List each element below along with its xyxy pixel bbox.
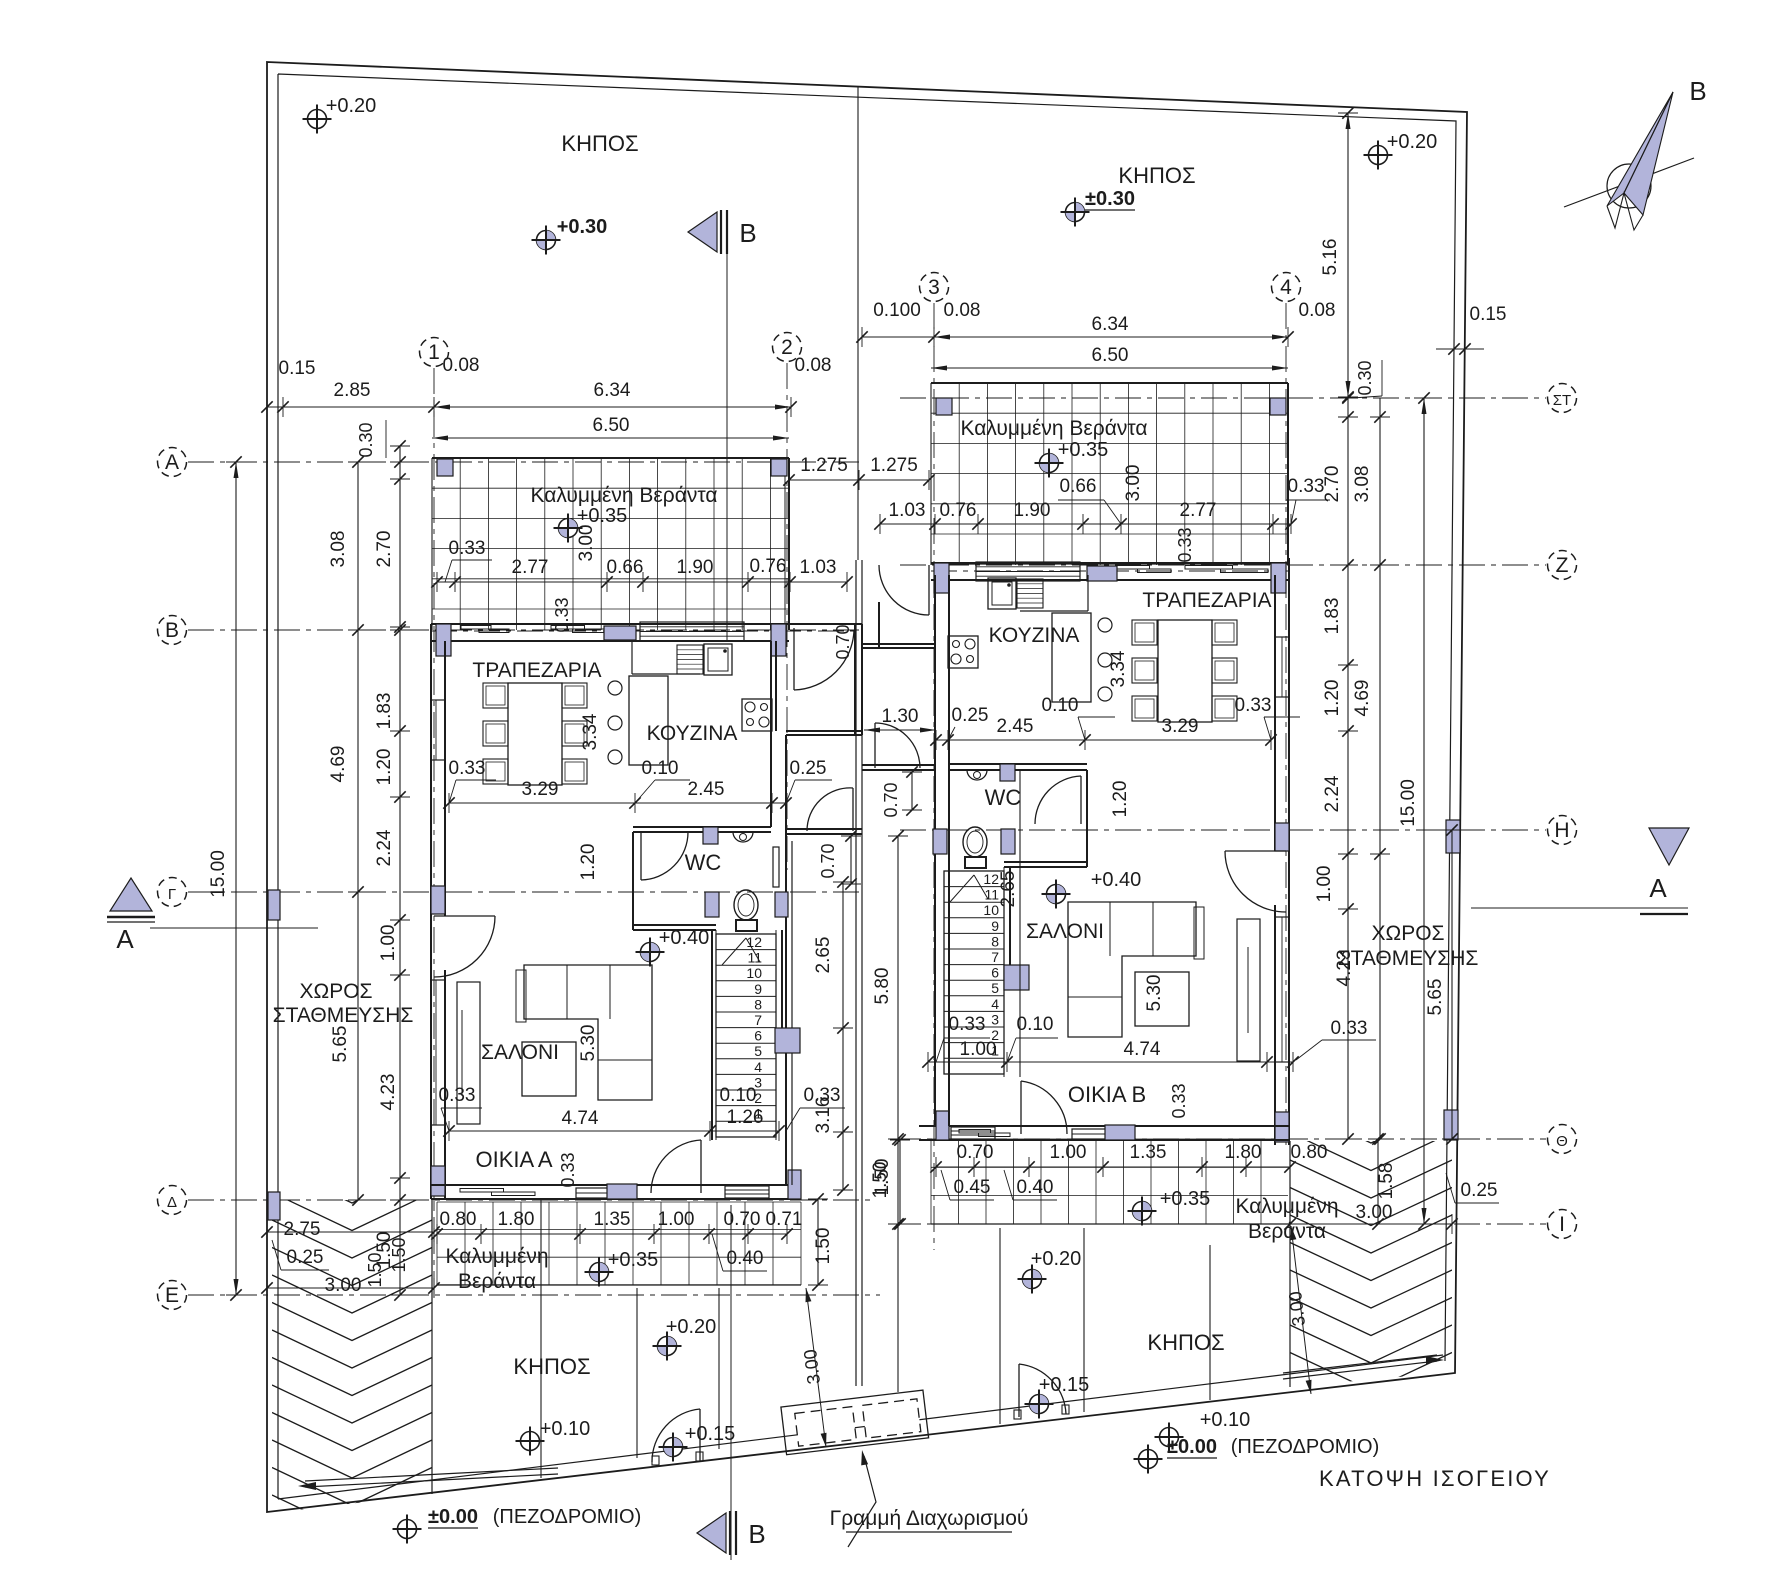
svg-text:3.00: 3.00 (1123, 465, 1144, 502)
house B top wall window 3 (1185, 566, 1233, 570)
svg-text:1.50: 1.50 (365, 1252, 385, 1287)
north arrow (1607, 164, 1651, 208)
property division line (Gramma Diachorismou) (857, 86, 859, 560)
column A top-right (771, 624, 786, 656)
house B bottom covered veranda tile grid (931, 1139, 1288, 1224)
svg-text:1.20: 1.20 (374, 749, 395, 786)
dim 4.74 house A (449, 1130, 779, 1132)
spot level 0.00 street right (1139, 1450, 1158, 1469)
spot level +0.35 bottom veranda B (1133, 1202, 1152, 1221)
house B stairs (944, 871, 1004, 1074)
column A WC mid (703, 827, 718, 844)
svg-text:3.00: 3.00 (576, 525, 597, 562)
svg-text:+0.15: +0.15 (685, 1423, 736, 1445)
svg-text:6.50: 6.50 (1092, 345, 1129, 366)
section mark B bottom (697, 1513, 726, 1553)
svg-text:0.33: 0.33 (552, 597, 572, 632)
svg-text:1.275: 1.275 (800, 455, 848, 476)
svg-text:Καλυμμένη: Καλυμμένη (445, 1245, 548, 1268)
svg-text:0.10: 0.10 (642, 758, 679, 779)
house A covered veranda tile grid (432, 458, 789, 630)
svg-text:I: I (1559, 1213, 1565, 1236)
spot level +0.15 garden B (1030, 1395, 1049, 1414)
svg-text:5: 5 (754, 1043, 762, 1059)
svg-text:0.33: 0.33 (1169, 1083, 1189, 1118)
house A stair left wall (711, 930, 713, 1140)
dim chain top house B (862, 336, 1288, 338)
svg-text:1.275: 1.275 (870, 455, 918, 476)
section mark A left (110, 878, 152, 911)
svg-text:2.24: 2.24 (1322, 775, 1343, 812)
kitchen dish rack house A (677, 645, 703, 674)
svg-text:0.33: 0.33 (449, 538, 486, 559)
kitchen sink house B (988, 578, 1016, 609)
svg-text:7: 7 (991, 949, 999, 965)
stair break mark A (722, 938, 746, 965)
svg-text:3.08: 3.08 (328, 531, 349, 568)
house A stairs (716, 934, 776, 1137)
svg-text:ΚΗΠΟΣ: ΚΗΠΟΣ (1118, 163, 1195, 188)
axis line Gamma (188, 891, 862, 893)
svg-text:0.70: 0.70 (881, 782, 901, 817)
house B entrance door right wall (1225, 850, 1286, 852)
house A left wall (430, 624, 432, 1199)
house A corridor window right wall (773, 847, 779, 887)
spot level +0.30 top right garden (1066, 203, 1085, 222)
house B entrance door from passage (874, 723, 876, 768)
svg-text:0.33: 0.33 (1288, 476, 1325, 497)
left garden fence 1 (636, 1288, 638, 1458)
house B WC toilet (963, 827, 987, 857)
svg-text:4: 4 (991, 996, 999, 1012)
svg-text:0.70: 0.70 (724, 1209, 761, 1230)
spot level +0.10 garden B (1160, 1428, 1179, 1447)
kitchen hob house A (742, 699, 772, 731)
svg-text:Βεράντα: Βεράντα (1248, 1220, 1326, 1243)
svg-text:0.80: 0.80 (440, 1209, 477, 1230)
house A top wall window 2 (551, 626, 585, 630)
svg-text:0.33: 0.33 (449, 758, 486, 779)
site boundary inner line (278, 74, 1456, 1499)
dim chain left x358 (357, 462, 359, 1200)
svg-text:8: 8 (754, 996, 762, 1012)
column left boundary Gamma (268, 890, 280, 920)
column B stair jog (1004, 965, 1029, 990)
svg-text:4.74: 4.74 (562, 1108, 599, 1129)
svg-text:1: 1 (428, 341, 440, 364)
dim 1.30 house B entrance (864, 729, 936, 731)
column B bottom-left (936, 1111, 949, 1140)
house B bottom wall window 3 (951, 1127, 995, 1139)
svg-text:1.03: 1.03 (800, 557, 837, 578)
svg-text:2.45: 2.45 (688, 779, 725, 800)
axis line E (188, 1294, 880, 1296)
kitchen stools house B (1098, 618, 1112, 632)
svg-text:2.65: 2.65 (998, 871, 1019, 908)
svg-text:0.33: 0.33 (558, 1152, 578, 1187)
coffee table house B (1135, 972, 1189, 1026)
axis bubble Gamma (158, 878, 187, 907)
house A left wall window upper (431, 700, 445, 760)
column A top-mid (604, 626, 636, 640)
svg-text:4: 4 (754, 1059, 762, 1075)
svg-text:0.10: 0.10 (1042, 695, 1079, 716)
svg-text:0.08: 0.08 (944, 300, 981, 321)
dim chain veranda B (880, 523, 1291, 525)
svg-text:1.50: 1.50 (389, 1237, 409, 1272)
column A WC Gamma right (775, 892, 788, 917)
svg-text:ΣΑΛΟΝΙ: ΣΑΛΟΝΙ (481, 1041, 559, 1064)
house B top wall (931, 562, 1289, 564)
svg-text:0.15: 0.15 (279, 358, 316, 379)
svg-text:12: 12 (983, 871, 999, 887)
svg-text:1.30: 1.30 (882, 706, 919, 727)
house A WC toilet (734, 890, 758, 920)
svg-text:±0.30: ±0.30 (1085, 188, 1135, 210)
svg-text:0.76: 0.76 (750, 556, 787, 577)
house B right wall window lower (1275, 917, 1289, 1062)
svg-text:1.20: 1.20 (1322, 680, 1343, 717)
svg-text:11: 11 (747, 950, 762, 966)
spot level +0.40 salon A (641, 943, 660, 962)
svg-text:2.77: 2.77 (512, 557, 549, 578)
svg-text:5.65: 5.65 (1425, 979, 1446, 1016)
column right boundary H (1446, 820, 1460, 853)
stair break mark B (950, 875, 974, 902)
svg-text:B: B (165, 619, 179, 642)
house B bottom wall window 2 (1072, 1129, 1132, 1139)
svg-text:H: H (1554, 819, 1569, 842)
svg-text:+0.15: +0.15 (1039, 1374, 1090, 1396)
dim 1.275 pair verandas (789, 479, 929, 481)
column A bottom-right (788, 1170, 801, 1199)
svg-text:9: 9 (991, 918, 999, 934)
svg-text:0.40: 0.40 (727, 1248, 764, 1269)
house A kitchen right wall (770, 641, 772, 827)
spot level +0.35 veranda B (1040, 454, 1059, 473)
svg-text:2.65: 2.65 (813, 937, 834, 974)
svg-text:1.35: 1.35 (594, 1209, 631, 1230)
axis bubble Z (1548, 551, 1577, 580)
svg-text:ΤΡΑΠΕΖΑΡΙΑ: ΤΡΑΠΕΖΑΡΙΑ (1142, 589, 1271, 612)
svg-text:+0.20: +0.20 (326, 95, 377, 117)
axis bubble B (158, 616, 187, 645)
svg-text:(ΠΕΖΟΔΡΟΜΙΟ): (ΠΕΖΟΔΡΟΜΙΟ) (1231, 1436, 1380, 1458)
svg-text:±0.00: ±0.00 (428, 1506, 478, 1528)
svg-text:3.29: 3.29 (1162, 716, 1199, 737)
svg-text:A: A (1649, 873, 1667, 903)
svg-text:ΧΩΡΟΣ: ΧΩΡΟΣ (1371, 922, 1444, 945)
dim chain right x1348 (1347, 398, 1349, 1139)
house A side door from passage (786, 828, 862, 830)
svg-text:6.50: 6.50 (593, 415, 630, 436)
house B WC washbasin (967, 770, 987, 780)
svg-text:1.58: 1.58 (1376, 1163, 1397, 1200)
svg-text:Z: Z (1556, 554, 1569, 577)
axis line B (188, 629, 862, 631)
right garden gate door (1018, 1364, 1020, 1417)
svg-text:1.03: 1.03 (889, 500, 926, 521)
svg-text:3.00: 3.00 (1356, 1202, 1393, 1223)
spot level +0.35 bottom veranda A (590, 1263, 609, 1282)
house B bottom wall (919, 1125, 1289, 1127)
svg-text:0.33: 0.33 (1331, 1018, 1368, 1039)
svg-text:0.80: 0.80 (1291, 1142, 1328, 1163)
kitchen dish rack house B (1017, 579, 1043, 608)
dim 3.00 slant arrows (806, 1288, 826, 1447)
axis line 4 vertical (1285, 303, 1287, 1145)
tv unit house B (1237, 919, 1260, 1061)
svg-text:Καλυμμένη Βεράντα: Καλυμμένη Βεράντα (530, 484, 717, 507)
house B bottom wall window 1 (959, 1130, 991, 1134)
house A bottom wall window 2 (576, 1188, 636, 1198)
svg-text:ΟΙΚΙΑ Α: ΟΙΚΙΑ Α (475, 1147, 552, 1172)
svg-text:ΚΗΠΟΣ: ΚΗΠΟΣ (1147, 1330, 1224, 1355)
kitchen hob house B (948, 636, 978, 668)
svg-text:4: 4 (1280, 276, 1292, 299)
svg-text:6: 6 (991, 965, 999, 981)
svg-text:0.66: 0.66 (1060, 476, 1097, 497)
column A left bottom (431, 1166, 445, 1196)
svg-text:3.34: 3.34 (1108, 650, 1129, 687)
column B top-left (934, 563, 949, 593)
svg-text:1.90: 1.90 (677, 557, 714, 578)
house B door from veranda (top left) (928, 565, 930, 615)
dim chain bottom veranda B (936, 1166, 1290, 1168)
svg-text:0.70: 0.70 (818, 843, 838, 878)
spot level +0.15 garden A (664, 1438, 683, 1457)
kitchen counter house A (631, 641, 633, 674)
column A WC Gamma left (705, 892, 719, 917)
svg-text:+0.35: +0.35 (608, 1249, 659, 1271)
house A top wall window left (461, 626, 491, 630)
column A bottom-mid (607, 1184, 637, 1199)
svg-text:1.80: 1.80 (498, 1209, 535, 1230)
house B WC bottom wall (1004, 861, 1087, 863)
svg-text:1.26: 1.26 (727, 1107, 764, 1128)
svg-text:0.33: 0.33 (1235, 695, 1272, 716)
svg-text:Βεράντα: Βεράντα (458, 1270, 536, 1293)
section line B upper (726, 254, 728, 640)
chairs house A dining (483, 683, 508, 708)
axis line Z (900, 564, 1546, 566)
column A left Gamma (431, 886, 445, 914)
svg-text:+0.40: +0.40 (1091, 869, 1142, 891)
house B WC door (1080, 776, 1082, 824)
kitchen island house A (629, 676, 668, 765)
svg-text:±0.00: ±0.00 (1167, 1436, 1217, 1458)
svg-text:1.00: 1.00 (1314, 866, 1335, 903)
axis bubble I (1548, 1210, 1577, 1239)
svg-text:10: 10 (983, 902, 999, 918)
svg-text:4.23: 4.23 (378, 1074, 399, 1111)
svg-text:0.33: 0.33 (439, 1085, 476, 1106)
svg-text:3.34: 3.34 (580, 713, 601, 750)
svg-text:ΣΑΛΟΝΙ: ΣΑΛΟΝΙ (1026, 920, 1104, 943)
svg-text:0.08: 0.08 (443, 355, 480, 376)
dim 15.00 left (235, 462, 237, 1295)
svg-text:2.70: 2.70 (1322, 466, 1343, 503)
axis bubble 2 (773, 333, 802, 362)
svg-text:+0.10: +0.10 (1200, 1409, 1251, 1431)
svg-text:3: 3 (991, 1011, 999, 1027)
svg-text:2.45: 2.45 (997, 716, 1034, 737)
svg-text:0.33: 0.33 (804, 1085, 841, 1106)
house B covered veranda tile grid (931, 383, 1288, 565)
svg-text:5: 5 (991, 980, 999, 996)
svg-text:0.15: 0.15 (1470, 304, 1507, 325)
column B WC mid (1000, 764, 1015, 781)
svg-text:2.70: 2.70 (374, 531, 395, 568)
column B bottom-mid (1105, 1125, 1135, 1140)
dim chain bottom veranda A (437, 1233, 787, 1235)
svg-text:+0.35: +0.35 (577, 505, 628, 527)
svg-text:0.30: 0.30 (1355, 360, 1375, 395)
house A wall y731 vestibule (786, 730, 862, 732)
axis bubble E (158, 1281, 187, 1310)
svg-text:6: 6 (754, 1028, 762, 1044)
house A right upper wall (854, 624, 856, 735)
svg-text:B: B (739, 218, 756, 248)
svg-text:2.24: 2.24 (374, 829, 395, 866)
dim chain veranda A (437, 581, 847, 583)
svg-text:11: 11 (984, 887, 999, 903)
chairs house B dining (1132, 620, 1157, 645)
axis bubble ST (1548, 384, 1577, 413)
svg-text:0.25: 0.25 (287, 1247, 324, 1268)
svg-text:5.30: 5.30 (578, 1025, 599, 1062)
svg-text:ΚΗΠΟΣ: ΚΗΠΟΣ (561, 131, 638, 156)
dim 15.00 right (1423, 398, 1425, 1224)
svg-text:+0.30: +0.30 (557, 216, 608, 238)
spot level +0.20 garden B (1023, 1270, 1042, 1289)
house A bottom wall (431, 1184, 801, 1186)
svg-text:5.30: 5.30 (1144, 975, 1165, 1012)
column B WC H right (1001, 829, 1015, 854)
svg-text:4.69: 4.69 (328, 746, 349, 783)
house A WC top wall (633, 826, 771, 828)
svg-text:6.34: 6.34 (594, 380, 631, 401)
svg-text:WC: WC (685, 850, 722, 875)
dim labels kitchen A (449, 802, 786, 804)
svg-text:8: 8 (991, 933, 999, 949)
svg-text:Καλυμμένη: Καλυμμένη (1235, 1195, 1338, 1218)
svg-text:2.85: 2.85 (334, 380, 371, 401)
column A top-left (436, 624, 451, 656)
kitchen counter house B (1087, 575, 1089, 611)
svg-text:3.00: 3.00 (800, 1348, 824, 1385)
svg-text:0.25: 0.25 (1461, 1180, 1498, 1201)
house B right wall window upper (1275, 637, 1289, 697)
right garden fence 1 (999, 1228, 1001, 1424)
site boundary outer line (267, 62, 1467, 1512)
svg-text:0.76: 0.76 (940, 500, 977, 521)
right garden fence 2 (1083, 1228, 1085, 1412)
axis line ST (900, 397, 1546, 399)
section line B lower (730, 1205, 732, 1560)
house B left wall (934, 575, 936, 1126)
house A bottom wall window 1 (460, 1189, 504, 1193)
house A door from veranda (top right) (793, 628, 795, 690)
column B top-right (1271, 563, 1286, 593)
axis line 2 vertical (786, 363, 788, 870)
svg-text:4.69: 4.69 (1352, 680, 1373, 717)
column A stair right jog (775, 1028, 800, 1053)
svg-text:(ΠΕΖΟΔΡΟΜΙΟ): (ΠΕΖΟΔΡΟΜΙΟ) (493, 1506, 642, 1528)
svg-text:E: E (165, 1284, 179, 1307)
dim 6.50 house B veranda (931, 367, 1288, 369)
sofa house A (524, 965, 652, 1100)
kitchen island house B (1052, 613, 1091, 702)
svg-text:2.75: 2.75 (284, 1219, 321, 1240)
house A WC door (640, 832, 642, 880)
axis line Delta (188, 1199, 870, 1201)
svg-text:1.90: 1.90 (1014, 500, 1051, 521)
spot level 0.00 street left (398, 1520, 417, 1539)
tv unit house A (457, 982, 480, 1124)
svg-text:5.80: 5.80 (872, 968, 893, 1005)
svg-text:+0.35: +0.35 (1160, 1188, 1211, 1210)
house B top wall kitchen window (976, 562, 1080, 581)
svg-text:Θ: Θ (1556, 1133, 1568, 1150)
section mark A right (1649, 828, 1689, 865)
svg-text:3.00: 3.00 (1285, 1290, 1309, 1327)
svg-text:Γ: Γ (168, 886, 176, 903)
svg-text:0.08: 0.08 (795, 355, 832, 376)
house A top wall (431, 623, 862, 625)
kitchen stools house A (608, 681, 622, 695)
svg-text:A: A (165, 451, 179, 474)
svg-text:0.10: 0.10 (720, 1085, 757, 1106)
svg-text:2: 2 (781, 336, 793, 359)
axis bubble 3 (920, 273, 949, 302)
dim 5.16 right line (1347, 113, 1349, 397)
svg-text:B: B (1689, 76, 1706, 106)
svg-text:0.70: 0.70 (833, 624, 853, 659)
house A garden path edge (540, 1199, 542, 1478)
house B porch left wall (878, 602, 880, 648)
dim 2.75/0.25/3.00 left ramp (267, 1231, 434, 1233)
house A bottom covered veranda tile grid (437, 1202, 801, 1285)
column B WC H left (933, 829, 947, 854)
dim 5.80 passage (897, 836, 899, 1392)
svg-text:5.16: 5.16 (1320, 239, 1341, 276)
svg-text:0.25: 0.25 (952, 705, 989, 726)
dim chain left x400 (399, 446, 401, 1295)
house A bottom wall window 3 (725, 1186, 769, 1198)
svg-text:ΚΟΥΖΙΝΑ: ΚΟΥΖΙΝΑ (989, 624, 1080, 647)
svg-text:+0.20: +0.20 (1031, 1248, 1082, 1270)
dining table house A (508, 683, 562, 785)
svg-text:0.25: 0.25 (790, 758, 827, 779)
column B right H (1275, 823, 1289, 851)
svg-text:ΚΑΤΟΨΗ ΙΣΟΓΕΙΟΥ: ΚΑΤΟΨΗ ΙΣΟΓΕΙΟΥ (1319, 1466, 1551, 1491)
svg-text:ΚΗΠΟΣ: ΚΗΠΟΣ (513, 1354, 590, 1379)
house B porch walls (862, 643, 935, 645)
svg-text:0.70: 0.70 (957, 1142, 994, 1163)
house B stair right wall (1003, 867, 1005, 1077)
svg-text:1.00: 1.00 (658, 1209, 695, 1230)
svg-text:Δ: Δ (167, 1194, 177, 1211)
dim chain top house A 2.85/6.34 (267, 406, 791, 408)
svg-text:+0.20: +0.20 (1387, 131, 1438, 153)
column right boundary Theta (1444, 1110, 1458, 1140)
dim 0.15 top right (1436, 348, 1484, 350)
axis bubble H (1548, 816, 1577, 845)
svg-text:+0.10: +0.10 (540, 1418, 591, 1440)
svg-text:ΟΙΚΙΑ B: ΟΙΚΙΑ B (1068, 1082, 1146, 1107)
svg-text:+0.40: +0.40 (659, 927, 710, 949)
